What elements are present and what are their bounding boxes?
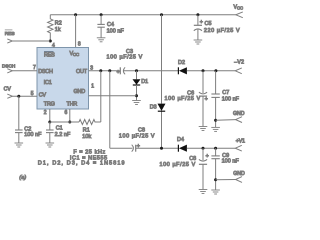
terminal -V2 arrow <box>234 59 244 73</box>
capacitor C5 polarized <box>194 15 240 40</box>
svg-text:D3: D3 <box>150 105 157 111</box>
node C7 junction <box>214 69 217 72</box>
terminal Vcc arrow <box>234 5 244 18</box>
wire CV input <box>12 95 37 97</box>
node GND tap junction <box>214 119 217 122</box>
svg-text:4: 4 <box>52 43 55 49</box>
svg-text:+V1: +V1 <box>236 139 245 145</box>
op-amp IC1 NE555 box <box>37 48 89 110</box>
node C9 junction <box>214 147 217 150</box>
svg-text:100 µF/25 V: 100 µF/25 V <box>164 96 200 102</box>
ground (C6) <box>199 127 208 131</box>
svg-text:1: 1 <box>91 84 94 90</box>
node C6 junction <box>202 69 205 72</box>
svg-text:6: 6 <box>65 110 68 116</box>
svg-text:100 nF: 100 nF <box>222 159 240 165</box>
svg-text:100 µF/25 V: 100 µF/25 V <box>107 54 143 60</box>
node CV/C2 junction <box>17 95 20 98</box>
svg-text:100 µF/25 V: 100 µF/25 V <box>159 162 195 168</box>
svg-text:+: + <box>137 143 140 149</box>
svg-text:8: 8 <box>78 42 81 48</box>
ground (C2) <box>15 143 24 147</box>
wire TRG-THR-R1 <box>50 121 79 123</box>
resistor R2 <box>48 15 62 41</box>
node D1-gnd junction <box>135 94 138 97</box>
svg-text:DSCH: DSCH <box>38 69 53 75</box>
svg-text:+: + <box>206 154 209 160</box>
diode D4 <box>177 137 235 152</box>
svg-text:D4: D4 <box>177 137 184 143</box>
svg-text:TRG: TRG <box>44 101 55 107</box>
wire DSCH input <box>12 70 37 72</box>
ground (C4) <box>97 38 106 42</box>
capacitor C8 horizontal polarized <box>119 128 179 152</box>
terminal CV arrow <box>4 86 13 98</box>
capacitor C8 vertical polarized <box>159 148 208 189</box>
ground (C1) <box>46 143 55 147</box>
wire C8 drop <box>109 71 111 148</box>
svg-text:RES: RES <box>5 31 15 37</box>
node D3-C8 junction <box>160 147 163 150</box>
node THR junction <box>68 121 71 124</box>
capacitor C7 <box>211 71 239 128</box>
diode D3 <box>150 104 166 112</box>
svg-text:100 nF: 100 nF <box>222 97 240 103</box>
wire top rail <box>50 14 236 16</box>
wire GND tap 2 <box>216 179 236 181</box>
svg-text:D1: D1 <box>141 79 148 85</box>
capacitor C4 <box>97 15 124 38</box>
svg-text:VCC: VCC <box>70 51 80 57</box>
svg-text:D1, D2, D3, D4 = 1N5819: D1, D2, D3, D4 = 1N5819 <box>38 161 126 167</box>
svg-text:C7: C7 <box>222 90 229 96</box>
svg-text:220 µF/25 V: 220 µF/25 V <box>204 28 240 34</box>
wire D3 vertical drop <box>161 15 163 104</box>
note text block <box>38 150 126 167</box>
node pin4 junction <box>49 40 52 43</box>
svg-text:VCC: VCC <box>234 5 244 11</box>
svg-text:GND: GND <box>74 89 86 95</box>
terminal GND arrow <box>233 111 245 123</box>
ground (D1) <box>132 101 141 105</box>
svg-text:C5: C5 <box>205 21 212 27</box>
ground (C8v) <box>199 190 208 194</box>
ground (C7) <box>211 127 220 131</box>
svg-text:2: 2 <box>44 110 47 116</box>
svg-text:2.2 nF: 2.2 nF <box>55 132 71 138</box>
capacitor C9 <box>211 148 239 190</box>
svg-text:1k: 1k <box>55 27 61 33</box>
node C4 junction <box>100 13 103 16</box>
wire GND tap <box>216 119 236 122</box>
svg-text:CV: CV <box>4 86 12 92</box>
svg-text:100 nF: 100 nF <box>107 28 125 34</box>
svg-text:D2: D2 <box>178 60 185 66</box>
node pin8 junction <box>74 13 77 16</box>
node D1 junction <box>135 69 138 72</box>
node OUT-C8 junction <box>108 69 111 72</box>
svg-text:+: + <box>205 97 208 103</box>
svg-text:+: + <box>117 70 120 76</box>
svg-text:IC1: IC1 <box>44 80 52 86</box>
svg-text:C4: C4 <box>107 22 114 28</box>
node GND tap 2 junction <box>214 178 217 181</box>
svg-text:THR: THR <box>67 101 78 107</box>
svg-text:DSCH: DSCH <box>2 64 15 69</box>
ground (C9) <box>211 190 220 194</box>
wire pin2 stub <box>49 109 51 122</box>
svg-text:OUT: OUT <box>76 69 88 75</box>
diode D1 <box>133 71 149 101</box>
capacitor C3 polarized <box>107 49 143 76</box>
svg-text:RES: RES <box>44 52 55 58</box>
ground (C5) <box>194 40 203 44</box>
terminal +V1 arrow <box>235 139 245 152</box>
svg-text:+: + <box>200 20 203 26</box>
svg-text:–V2: –V2 <box>234 59 244 65</box>
terminal RES arrow <box>5 30 15 43</box>
wire OUT pin3 <box>89 70 121 72</box>
svg-text:C1: C1 <box>56 126 63 132</box>
wire GND pin1 <box>89 95 137 97</box>
svg-text:(a): (a) <box>19 175 26 181</box>
svg-text:7: 7 <box>33 65 36 71</box>
terminal GND arrow 2 <box>233 171 245 183</box>
svg-text:R2: R2 <box>55 21 62 27</box>
node D3 rail junction <box>160 13 163 16</box>
wire pin6 stub <box>69 109 71 122</box>
svg-text:GND: GND <box>233 171 245 177</box>
capacitor C1 <box>46 122 71 143</box>
node OUT-R1 junction <box>99 69 102 72</box>
node C5 junction <box>196 13 199 16</box>
capacitor C6 polarized <box>164 71 207 127</box>
svg-text:100 µF/25 V: 100 µF/25 V <box>119 133 155 139</box>
node C8v junction <box>202 147 205 150</box>
terminal DSCH arrow <box>2 64 15 73</box>
svg-text:CV: CV <box>39 93 47 99</box>
svg-text:10k: 10k <box>82 134 91 140</box>
svg-text:R1: R1 <box>83 128 90 134</box>
wire RES input <box>12 40 50 42</box>
capacitor C2 <box>15 96 42 143</box>
node TRG junction <box>48 121 51 124</box>
svg-text:100 nF: 100 nF <box>24 132 42 138</box>
svg-text:GND: GND <box>233 111 245 117</box>
diode D2 <box>178 60 235 75</box>
wire pin8 <box>75 15 77 48</box>
resistor R1 <box>79 71 101 140</box>
